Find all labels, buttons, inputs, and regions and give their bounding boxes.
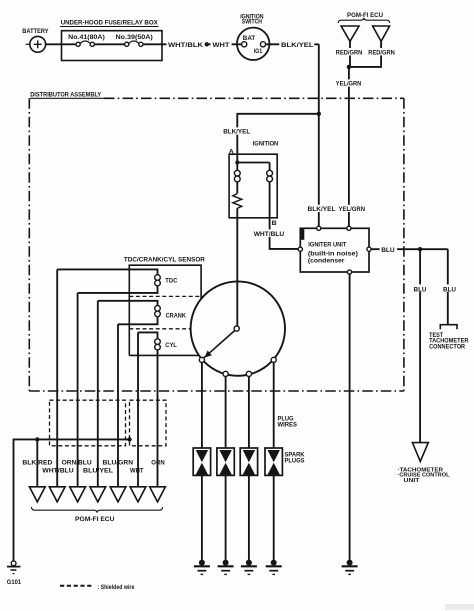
svg-text:YEL/GRN: YEL/GRN	[336, 81, 362, 88]
wire branch to ignition coil A	[222, 114, 319, 163]
svg-text:BLU: BLU	[381, 247, 395, 254]
svg-text:WHT/BLU: WHT/BLU	[42, 468, 74, 475]
svg-text:BLU/GRN: BLU/GRN	[103, 459, 134, 466]
svg-text:WHT/BLU: WHT/BLU	[254, 231, 285, 238]
plug wire 3	[248, 377, 250, 449]
ECU pin triangle 5 BLU/GRN	[103, 459, 134, 502]
sensor wire col2 WHT/BLU	[56, 269, 58, 486]
ECU pin triangle 2 WHT/BLU	[42, 468, 74, 502]
rotor center	[234, 326, 239, 331]
sensor wire col4 BLU/YEL	[97, 301, 99, 487]
ground spark plug 3	[241, 560, 257, 575]
ECU output triangle RED/GRN 1	[335, 26, 364, 67]
wire battery to fuse No.41	[46, 43, 76, 45]
svg-text:BLU/YEL: BLU/YEL	[83, 468, 113, 475]
connector dot on wire	[205, 42, 209, 46]
svg-text:WHT/BLK: WHT/BLK	[168, 42, 203, 49]
plug wire 2	[225, 377, 227, 449]
svg-text:WIRES: WIRES	[278, 421, 298, 428]
junction dot shield	[127, 437, 131, 441]
spark plug 1	[193, 448, 210, 560]
cap terminal 1	[199, 357, 204, 362]
svg-text:IG1: IG1	[254, 48, 263, 55]
wire col1 BLK/RED	[36, 439, 38, 486]
ignition coil	[229, 140, 278, 217]
svg-text:CYL: CYL	[165, 342, 177, 349]
svg-text:WHT: WHT	[130, 468, 144, 475]
PGM-FI ECU bracket (bottom)	[32, 507, 163, 523]
ECU output triangle RED/GRN 2	[349, 26, 396, 67]
wire between fuses	[94, 43, 124, 45]
wire switch to BLK/YEL corner	[266, 40, 319, 49]
ground G101	[7, 561, 21, 586]
svg-text:IGNITER UNIT: IGNITER UNIT	[308, 242, 347, 249]
svg-text:BATTERY: BATTERY	[22, 28, 49, 35]
legend shielded wire	[60, 584, 135, 591]
fuse No.41(80A)	[68, 34, 105, 47]
wire igniter bottom to ground	[349, 274, 351, 560]
ground spark plug 1	[194, 560, 210, 575]
svg-text:PGM-FI ECU: PGM-FI ECU	[75, 516, 115, 523]
plug wires label	[278, 415, 298, 428]
svg-text:CONNECTOR: CONNECTOR	[429, 343, 465, 350]
svg-text:BLK/RED: BLK/RED	[22, 459, 52, 466]
TDC pickup coil	[57, 269, 177, 293]
svg-text:(condenser: (condenser	[308, 258, 345, 265]
sensor wire col3 ORN/BLU	[77, 293, 79, 487]
svg-text:PGM-FI ECU: PGM-FI ECU	[347, 12, 383, 19]
sensor wire col5 BLU/GRN	[117, 324, 119, 487]
svg-text:ORN/BLU: ORN/BLU	[62, 459, 92, 466]
wire coil primary to rotor center	[236, 208, 238, 326]
svg-text:BAT: BAT	[243, 35, 256, 42]
cap terminal 2	[223, 371, 228, 376]
ECU pin triangle 7 ORN	[150, 459, 166, 502]
wire BLU horizontal	[371, 246, 448, 254]
svg-text:DISTRIBUTOR ASSEMBLY: DISTRIBUTOR ASSEMBLY	[30, 92, 101, 99]
rotor arrowhead	[204, 351, 212, 358]
svg-text:IGNITION: IGNITION	[253, 140, 279, 147]
svg-text:PLUGS: PLUGS	[285, 457, 305, 464]
svg-text:TDC: TDC	[165, 277, 177, 284]
shielded wire dashed line 1	[129, 295, 203, 297]
shield box left	[50, 400, 126, 446]
wire label YEL/GRN at igniter	[337, 205, 366, 213]
svg-text:ORN: ORN	[151, 459, 165, 466]
svg-text:BLK/YEL: BLK/YEL	[308, 206, 336, 213]
shielded wire dashed line 2	[129, 328, 190, 330]
ground igniter	[342, 560, 358, 575]
wire BLK/YEL vertical to igniter	[318, 44, 320, 226]
ECU pin triangle 1 BLK/RED	[22, 459, 52, 502]
spark plugs label	[285, 452, 305, 465]
distributor assembly dashed box	[29, 92, 404, 391]
wire YEL/GRN vertical to igniter	[335, 67, 363, 226]
rotor arm	[204, 330, 235, 358]
spark plug 2	[217, 448, 234, 560]
sensor wire col6 WHT	[137, 332, 139, 486]
wire label BLK/YEL at igniter	[306, 205, 337, 213]
wire coil B to igniter WHT/BLU	[252, 218, 298, 249]
svg-text:No.41(80A): No.41(80A)	[68, 34, 105, 41]
wire coil internal link	[237, 162, 269, 164]
cap terminal 3	[246, 371, 251, 376]
coil secondary winding	[267, 163, 273, 218]
tachometer / cruise control connector triangle	[398, 443, 450, 485]
ECU pin triangle 6 WHT	[130, 468, 146, 502]
svg-text:WHT: WHT	[213, 42, 231, 49]
resistor (coil primary)	[233, 194, 242, 209]
junction dot coil A	[235, 161, 239, 165]
igniter unit	[298, 226, 371, 274]
ignition switch	[237, 15, 269, 60]
spark plug 3	[240, 448, 257, 560]
svg-text:UNIT: UNIT	[404, 478, 421, 484]
sensor frame	[129, 265, 201, 355]
svg-text:: Shielded wire: : Shielded wire	[97, 584, 134, 591]
spark plug 4	[265, 448, 282, 560]
PGM-FI ECU label (top)	[338, 12, 389, 23]
ECU pin triangle 4 BLU/YEL	[83, 468, 113, 502]
junction dot YEL/GRN	[347, 65, 351, 69]
wire BLU to tachometer triangle	[412, 249, 428, 442]
test tachometer connector	[429, 325, 469, 351]
svg-text:UNDER-HOOD FUSE/RELAY BOX: UNDER-HOOD FUSE/RELAY BOX	[61, 20, 158, 27]
coil primary winding	[234, 163, 240, 194]
battery	[22, 28, 49, 52]
plug wire 1	[201, 363, 203, 449]
ECU pin triangle 3 ORN/BLU	[62, 459, 92, 502]
svg-text:G101: G101	[7, 579, 21, 586]
shield box right	[130, 400, 167, 446]
fuse No.39(50A)	[116, 34, 153, 47]
svg-text:RED/GRN: RED/GRN	[336, 50, 363, 57]
junction dot BLK/YEL branch	[317, 112, 321, 116]
under-hood fuse/relay box	[60, 20, 162, 61]
svg-text:No.39(50A): No.39(50A)	[116, 34, 153, 41]
ground spark plug 4	[266, 560, 282, 575]
svg-text:BLU: BLU	[414, 286, 427, 293]
ground spark plug 2	[218, 560, 234, 575]
svg-text:CRANK: CRANK	[166, 313, 186, 320]
svg-text:BLK/YEL: BLK/YEL	[281, 42, 314, 49]
svg-text:BLU: BLU	[443, 286, 456, 293]
ground bus wire BLK/RED	[14, 439, 130, 561]
svg-text:TDC/CRANK/CYL SENSOR: TDC/CRANK/CYL SENSOR	[124, 257, 205, 264]
scan smudge	[445, 604, 474, 610]
junction dot BLU	[418, 247, 422, 251]
wire fuse box to ignition switch WHT/BLK WHT	[143, 40, 242, 49]
svg-text:B: B	[272, 220, 277, 227]
svg-text:SWITCH: SWITCH	[242, 20, 262, 26]
CYL pickup coil	[138, 332, 177, 350]
wire BLU to test tachometer connector	[442, 249, 458, 324]
plug wire 4	[273, 363, 275, 449]
svg-text:RED/GRN: RED/GRN	[368, 50, 395, 57]
CRANK pickup coil	[98, 301, 186, 325]
sensor wire col7 ORN	[157, 350, 159, 487]
cap terminal 4	[271, 357, 276, 362]
svg-text:YEL/GRN: YEL/GRN	[339, 206, 366, 213]
svg-text:BLK/YEL: BLK/YEL	[223, 129, 250, 136]
junction dot col1	[35, 437, 39, 441]
distributor cap circle	[191, 281, 285, 375]
